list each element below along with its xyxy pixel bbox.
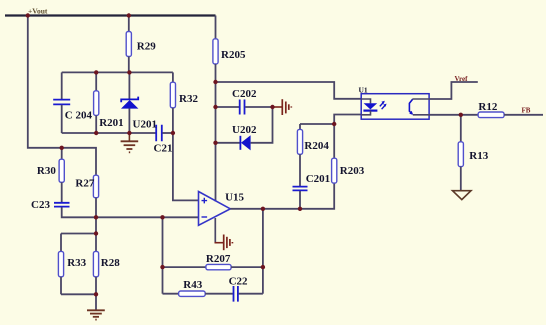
capacitor C22 — [229, 276, 248, 302]
node minus wire/feedback — [160, 215, 164, 219]
capacitor C204 — [53, 100, 92, 122]
wire R32 bottom to op-amp plus input — [173, 108, 199, 201]
svg-text:C22: C22 — [229, 276, 248, 288]
wire box left edge upper (C204 top lead) — [61, 72, 63, 99]
svg-text:R203: R203 — [340, 165, 365, 177]
wire R13 bottom lead — [460, 167, 462, 191]
wire C202 right lead — [245, 106, 272, 108]
svg-text:R30: R30 — [37, 165, 56, 177]
svg-text:R13: R13 — [469, 150, 488, 162]
op-amp U15 — [199, 191, 245, 225]
svg-text:R204: R204 — [304, 140, 329, 152]
wire R29 bottom lead — [128, 57, 130, 73]
wire R204 top tie — [300, 123, 334, 125]
svg-text:U15: U15 — [225, 191, 244, 203]
capacitor C202 — [232, 88, 257, 115]
node output/feedback — [261, 207, 265, 211]
svg-text:C23: C23 — [31, 199, 50, 211]
wire R207 left lead — [163, 266, 206, 268]
wire left vertical from rail — [28, 16, 96, 176]
svg-text:U202: U202 — [232, 124, 257, 136]
node box bottom/R32 column — [171, 131, 175, 135]
wire feedback right vertical — [262, 209, 264, 294]
svg-text:U201: U201 — [133, 119, 157, 131]
svg-text:R28: R28 — [101, 257, 120, 269]
node output/C201 — [298, 207, 302, 211]
phototransistor inside U1 — [409, 99, 412, 114]
wire R27 node down to R33/R28 pair — [95, 217, 97, 233]
resistor R29 — [126, 32, 131, 57]
node R207 left — [160, 265, 164, 269]
svg-text:+Vout: +Vout — [28, 7, 48, 16]
svg-text:U1: U1 — [359, 86, 368, 95]
wire U202 right lead up to C202 node — [251, 107, 273, 143]
wire R29 top lead — [128, 16, 130, 32]
node U202 tap — [213, 141, 217, 145]
resistor R201 — [94, 91, 99, 116]
ground below op-amp — [215, 218, 233, 250]
wire main vertical to op-amp V+ — [215, 82, 217, 202]
svg-text:R43: R43 — [183, 279, 202, 291]
wire C22 right lead — [239, 293, 263, 295]
node rail/R29 — [127, 13, 131, 17]
node box bottom/R201 — [94, 131, 98, 135]
svg-text:R32: R32 — [179, 93, 198, 105]
node R12/R13 — [459, 113, 463, 117]
svg-text:Vref: Vref — [455, 75, 469, 83]
resistor R32 — [170, 82, 175, 108]
resistor R12 — [478, 101, 504, 118]
wire feedback left vertical — [162, 217, 164, 293]
resistor R28 — [93, 234, 120, 295]
wire box top edge — [62, 71, 173, 73]
svg-text:C21: C21 — [154, 143, 173, 155]
node R205 bottom — [213, 80, 217, 84]
wire U202 left lead — [216, 142, 241, 144]
svg-text:C202: C202 — [232, 88, 257, 100]
wire box bottom edge left of C21 — [62, 132, 156, 134]
wire box bottom edge right of C21 — [162, 132, 173, 134]
wire R12 to FB — [504, 114, 543, 116]
svg-text:R27: R27 — [75, 177, 94, 189]
node box top/U201 — [127, 70, 131, 74]
wire R201 top lead — [95, 72, 97, 90]
wire rail corner to R205 — [215, 16, 217, 39]
wire box left edge lower (C204 bottom lead) — [61, 105, 63, 133]
wire R43 left lead — [163, 293, 179, 295]
wire R32 top lead — [172, 72, 174, 82]
diode U202 — [232, 124, 257, 150]
resistor R43 — [179, 279, 206, 296]
wire C202 left lead — [216, 106, 240, 108]
wire U201 bottom lead — [128, 108, 130, 133]
optocoupler U1 — [359, 86, 430, 120]
svg-text:R29: R29 — [137, 41, 156, 53]
node box top/R201 — [94, 70, 98, 74]
wire U201 top lead — [128, 72, 130, 99]
wire R13 top lead — [460, 115, 462, 142]
node R207 right — [261, 265, 265, 269]
wire opto collector to Vref stub — [429, 82, 478, 99]
svg-text:C201: C201 — [306, 173, 330, 185]
zener diode U201 — [121, 97, 157, 131]
capacitor C21 — [154, 125, 173, 155]
resistor R13 — [458, 142, 489, 167]
node R33/R28 top — [94, 231, 98, 235]
wire C23 bottom to minus input wire — [62, 207, 199, 217]
resistor R30 — [37, 148, 64, 202]
wire R43 to C22 — [205, 293, 233, 295]
svg-text:R207: R207 — [206, 253, 231, 265]
svg-text:R33: R33 — [67, 257, 86, 269]
resistor R203 — [332, 158, 365, 183]
wire op-amp output — [230, 124, 334, 209]
ground right of C202 — [273, 99, 292, 115]
capacitor C23 — [31, 199, 70, 211]
resistor R204 — [297, 124, 329, 186]
wire C201 bottom lead — [299, 191, 301, 209]
svg-text:FB: FB — [522, 107, 531, 115]
svg-text:R201: R201 — [99, 117, 123, 129]
node R203 top — [332, 122, 336, 126]
resistor R207 — [206, 253, 231, 270]
node minus wire/R27 — [94, 215, 98, 219]
wire R203 top to optocoupler cathode — [334, 115, 361, 125]
wire R207 right lead — [231, 266, 263, 268]
wire R33/R28 top tie — [61, 233, 96, 235]
svg-text:R12: R12 — [478, 101, 497, 113]
wire R205 bottom lead — [215, 64, 217, 82]
photon arrows — [380, 102, 384, 106]
node C202 right — [270, 105, 274, 109]
node R30 top — [60, 146, 64, 150]
capacitor C201 — [293, 173, 331, 191]
wire from R205 node to optocoupler anode — [216, 82, 362, 99]
wire top rail +Vout — [5, 14, 216, 16]
svg-text:R205: R205 — [221, 49, 246, 61]
node C202 tap — [213, 105, 217, 109]
node R33/R28 bottom — [94, 292, 98, 296]
wire R201 bottom lead — [95, 115, 97, 133]
resistor R27 — [75, 175, 98, 217]
node rail/left vertical — [26, 13, 30, 17]
node box bottom/U201 — [127, 131, 131, 135]
resistor R33 — [58, 234, 86, 295]
ground below U201 — [121, 133, 139, 152]
wire opto emitter to R12 — [429, 114, 478, 116]
ground below R28 — [87, 294, 105, 319]
LED inside U1 — [361, 99, 370, 103]
resistor R205 — [213, 39, 218, 64]
ground triangle below R13 — [453, 191, 472, 200]
wire R33/R28 bottom tie — [61, 293, 96, 295]
svg-text:C 204: C 204 — [65, 110, 93, 122]
